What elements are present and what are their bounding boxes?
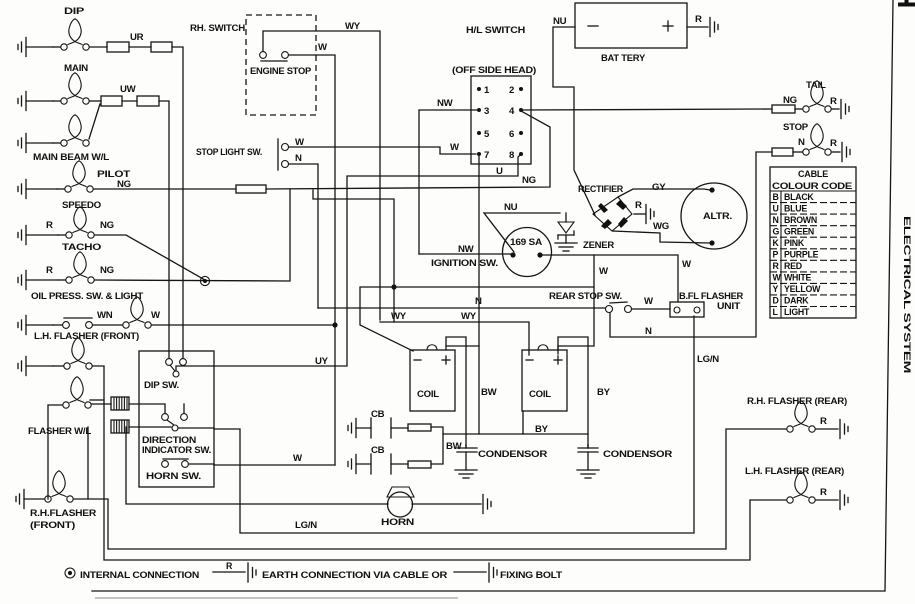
- svg-text:REAR STOP SW.: REAR STOP SW.: [549, 291, 622, 302]
- svg-text:7: 7: [484, 150, 489, 161]
- svg-text:K: K: [773, 238, 780, 248]
- svg-text:WY: WY: [391, 311, 407, 322]
- svg-text:R: R: [820, 416, 827, 427]
- rectifier bridge: [593, 197, 632, 231]
- connector UW b: [137, 96, 159, 106]
- svg-text:MAIN: MAIN: [64, 63, 88, 74]
- pin 7: [477, 150, 489, 161]
- wire connector1 into box: [129, 404, 165, 413]
- switch STOP LIGHT: [278, 139, 289, 170]
- svg-text:R.H.FLASHER: R.H.FLASHER: [30, 508, 96, 519]
- svg-text:RECTIFIER: RECTIFIER: [578, 184, 623, 195]
- wire N long to rear stop sw: [318, 307, 605, 309]
- svg-text:MAIN BEAM W/L: MAIN BEAM W/L: [33, 152, 109, 163]
- table row Y YELLOW: [770, 284, 856, 295]
- horn: [387, 487, 414, 517]
- svg-text:DIP SW.: DIP SW.: [144, 380, 179, 391]
- wire W from engine stop: [289, 55, 335, 465]
- ground PILOT lamp: [18, 180, 57, 199]
- svg-text:R: R: [830, 96, 837, 107]
- battery: [575, 3, 687, 48]
- svg-text:INDICATOR SW.: INDICATOR SW.: [142, 445, 211, 455]
- wire NU battery feed: [553, 27, 595, 215]
- wire flasher WL tap: [90, 399, 104, 401]
- page mark: [898, 0, 915, 7]
- wire NW pin3: [419, 110, 479, 254]
- ground DIP lamp: [18, 38, 53, 57]
- ground RH rear: [840, 420, 848, 439]
- svg-text:DARK: DARK: [784, 296, 809, 306]
- svg-text:COIL: COIL: [417, 389, 439, 400]
- wire direction sw centre to LGN: [178, 427, 214, 429]
- table row B BLACK: [770, 192, 856, 203]
- condensor 1: [457, 445, 477, 470]
- lamp MAIN BEAM W/L: [53, 115, 89, 146]
- svg-text:NG: NG: [783, 95, 797, 106]
- ground LH FLASHER FRONT: [18, 357, 53, 376]
- svg-text:Y: Y: [773, 284, 779, 294]
- wire LGN from box: [214, 316, 694, 533]
- switch HORN SW: [162, 459, 189, 467]
- connector UW a: [101, 96, 122, 106]
- ignition switch 169SA: [503, 228, 552, 277]
- pin 8: [509, 150, 523, 161]
- table row P PURPLE: [770, 250, 856, 261]
- lamp TACHO: [58, 252, 94, 283]
- wire connector2 into box: [129, 426, 171, 428]
- svg-text:B: B: [773, 192, 779, 202]
- wire coil1 plus to pin7 line: [446, 346, 479, 350]
- lamp LH FLASHER REAR: [787, 472, 838, 503]
- svg-text:BAT TERY: BAT TERY: [601, 53, 646, 64]
- svg-text:CB: CB: [371, 409, 385, 420]
- ground OIL PRESS: [18, 316, 53, 335]
- pin 5: [477, 129, 490, 140]
- svg-text:BLUE: BLUE: [784, 203, 807, 213]
- ground rectifier: [646, 205, 654, 224]
- wire LH front to LH rear: [93, 366, 786, 560]
- wire speedo diagonal to internal connection: [95, 235, 205, 280]
- svg-text:NG: NG: [100, 265, 114, 276]
- wire N stoplight riser: [289, 164, 318, 308]
- svg-text:WHITE: WHITE: [784, 273, 811, 283]
- svg-text:DIP: DIP: [64, 6, 85, 17]
- svg-text:NG: NG: [522, 175, 536, 186]
- wire W stoplight to pin7: [289, 147, 476, 154]
- legend fixing bolt symbol: [454, 563, 497, 582]
- wire WY from engine stop: [263, 31, 380, 320]
- svg-text:CONDENSOR: CONDENSOR: [478, 449, 547, 460]
- svg-text:W: W: [644, 296, 654, 307]
- svg-text:BW: BW: [446, 441, 463, 452]
- svg-text:R: R: [46, 220, 53, 231]
- svg-text:GY: GY: [652, 182, 666, 193]
- ground LH rear: [840, 491, 848, 510]
- wire UY into dip sw: [176, 366, 214, 371]
- svg-text:3: 3: [484, 106, 489, 117]
- node W junction: [332, 322, 337, 327]
- wire UW to DIP SW: [159, 101, 169, 351]
- wire rectifier R ground: [634, 213, 645, 215]
- border bottom shadow: [95, 597, 458, 599]
- svg-text:FLASHER W/L: FLASHER W/L: [28, 426, 91, 437]
- svg-text:R: R: [226, 561, 233, 571]
- ground zener: [555, 243, 577, 251]
- ground MAIN BEAM W/L: [18, 134, 53, 153]
- svg-text:TACHO: TACHO: [62, 242, 102, 253]
- connector UR b: [151, 42, 172, 52]
- svg-text:N: N: [295, 153, 302, 164]
- svg-text:FIXING BOLT: FIXING BOLT: [500, 570, 562, 581]
- svg-text:R: R: [635, 200, 642, 211]
- svg-text:COIL: COIL: [529, 389, 551, 400]
- svg-text:N: N: [645, 326, 652, 337]
- wire WG altr: [613, 231, 709, 243]
- border bottom: [92, 590, 884, 592]
- svg-text:WY: WY: [461, 311, 477, 322]
- lamp DIP: [53, 19, 107, 50]
- switch OIL PRESS: [53, 318, 92, 328]
- wire tacho to NG riser: [95, 190, 290, 281]
- table row G GREEN: [770, 226, 856, 237]
- wire battery R to ground: [687, 26, 708, 28]
- svg-text:NU: NU: [553, 16, 567, 27]
- switch DIRECTION INDICATOR: [162, 414, 188, 431]
- wire flasher WL to connector: [92, 403, 111, 405]
- svg-text:D: D: [773, 296, 779, 306]
- svg-text:WY: WY: [345, 21, 361, 32]
- wire W horn line: [214, 464, 335, 466]
- pin 2: [509, 85, 523, 96]
- connector CB2: [408, 461, 431, 468]
- wire pin4 to tail: [521, 109, 772, 110]
- zener diode: [558, 213, 574, 243]
- switch ENGINE STOP: [260, 52, 289, 61]
- svg-text:B.FL FLASHER: B.FL FLASHER: [679, 291, 744, 301]
- lamp MAIN: [53, 73, 101, 104]
- svg-text:L.H. FLASHER (FRONT): L.H. FLASHER (FRONT): [34, 331, 139, 342]
- wire W drop to coils: [558, 255, 594, 354]
- wire NG to pin4: [266, 111, 550, 189]
- svg-text:N: N: [798, 137, 805, 148]
- svg-text:LIGHT: LIGHT: [784, 307, 810, 317]
- svg-text:U: U: [496, 166, 503, 177]
- wire horn sw to W line: [189, 463, 214, 465]
- wire flasher WL left riser: [48, 405, 62, 499]
- svg-text:R: R: [773, 261, 780, 271]
- svg-text:(OFF SIDE HEAD): (OFF SIDE HEAD): [452, 65, 536, 75]
- ground TACHO lamp: [18, 271, 58, 290]
- ground tail: [841, 100, 849, 119]
- svg-text:CABLE: CABLE: [798, 169, 829, 180]
- svg-text:IGNITION SW.: IGNITION SW.: [431, 258, 498, 269]
- ground condensor 1: [455, 470, 477, 478]
- alternator ALTR: [681, 183, 747, 249]
- svg-text:LG/N: LG/N: [697, 354, 719, 365]
- wire junction riser: [313, 190, 394, 287]
- connector CB1: [408, 424, 431, 431]
- wire WY line: [380, 322, 529, 355]
- svg-text:L.H. FLASHER (REAR): L.H. FLASHER (REAR): [745, 466, 844, 477]
- lamp OIL PRESS: [93, 297, 151, 328]
- border right: [885, 0, 893, 591]
- svg-text:PURPLE: PURPLE: [784, 250, 819, 260]
- lamp RH FLASHER REAR: [787, 401, 838, 432]
- svg-text:DIRECTION: DIRECTION: [142, 435, 196, 445]
- svg-text:EARTH CONNECTION VIA CABLE OR: EARTH CONNECTION VIA CABLE OR: [262, 570, 447, 581]
- svg-text:N: N: [773, 215, 779, 225]
- wire UR link: [129, 46, 151, 48]
- wire coil2 plus to condensor2: [558, 337, 588, 448]
- ground stop: [842, 143, 850, 162]
- contact breaker 1: [348, 418, 408, 438]
- svg-text:CB: CB: [371, 445, 385, 456]
- svg-text:UW: UW: [120, 84, 137, 95]
- connector tail NG: [772, 105, 795, 113]
- wire ignition W output: [543, 255, 678, 302]
- table row D DARK: [770, 296, 856, 307]
- svg-text:STOP LIGHT SW.: STOP LIGHT SW.: [196, 147, 262, 158]
- lamp PILOT: [57, 161, 93, 192]
- pin 3: [477, 106, 489, 117]
- wire horn feed: [126, 427, 388, 504]
- svg-text:RH. SWITCH: RH. SWITCH: [190, 23, 245, 34]
- legend earth via cable symbol: [213, 563, 256, 582]
- svg-text:HORN SW.: HORN SW.: [146, 471, 201, 482]
- box handlebar switches: [139, 351, 214, 487]
- ground MAIN lamp: [18, 92, 53, 111]
- svg-text:W: W: [151, 310, 161, 321]
- table row W WHITE: [770, 273, 856, 284]
- svg-text:ELECTRICAL SYSTEM: ELECTRICAL SYSTEM: [901, 216, 912, 373]
- svg-text:STOP: STOP: [783, 122, 809, 133]
- svg-text:YELLOW: YELLOW: [784, 284, 821, 294]
- wire NG pilot: [94, 188, 236, 190]
- ground condensor 2: [577, 470, 599, 478]
- ground SPEEDO lamp: [18, 226, 58, 245]
- lamp TAIL: [795, 81, 839, 112]
- wire W coil branch: [360, 287, 594, 351]
- wire rear stop to flasher unit: [632, 308, 670, 310]
- svg-text:169 SA: 169 SA: [510, 237, 542, 248]
- wire NW into ignition: [419, 253, 511, 255]
- box ENGINE STOP dashed: [246, 15, 316, 115]
- node coil feed junction: [391, 284, 396, 289]
- svg-text:NG: NG: [100, 220, 114, 231]
- svg-text:W: W: [773, 273, 782, 283]
- pin 4: [509, 106, 523, 117]
- svg-text:R: R: [46, 265, 53, 276]
- wire coil1 plus to condensor: [446, 337, 466, 448]
- wire UW link: [122, 100, 137, 102]
- lamp FLASHER W/L: [63, 377, 91, 408]
- wire U from pin8: [214, 154, 521, 366]
- svg-text:R: R: [820, 487, 827, 498]
- svg-text:W: W: [450, 142, 460, 153]
- lamp RH FLASHER FRONT: [45, 471, 73, 502]
- switch REAR STOP: [606, 302, 632, 313]
- lamp STOP: [793, 124, 840, 155]
- svg-text:W: W: [318, 42, 328, 53]
- lamp SPEEDO: [58, 207, 94, 238]
- connector stop N: [772, 148, 793, 156]
- svg-text:NU: NU: [504, 202, 518, 213]
- svg-text:UY: UY: [315, 356, 329, 367]
- wire stub dir sw right: [183, 404, 185, 413]
- svg-text:BLACK: BLACK: [784, 192, 814, 202]
- svg-text:BW: BW: [481, 387, 498, 398]
- table row N BROWN: [770, 215, 856, 226]
- svg-text:H/L SWITCH: H/L SWITCH: [466, 25, 525, 36]
- svg-text:R: R: [695, 14, 702, 25]
- wire pin7 down: [478, 156, 480, 434]
- svg-text:GREEN: GREEN: [784, 226, 814, 236]
- svg-text:NW: NW: [437, 98, 454, 109]
- wire GY altr: [618, 189, 710, 197]
- svg-text:G: G: [773, 226, 780, 236]
- condensor 2: [578, 445, 598, 470]
- box H/L switch: [471, 76, 531, 164]
- svg-text:W: W: [293, 453, 303, 464]
- wire CB2 riser: [431, 434, 443, 464]
- svg-text:U: U: [773, 203, 779, 213]
- connector direction switch upper: [111, 397, 129, 410]
- svg-text:WN: WN: [97, 310, 113, 321]
- svg-text:HORN: HORN: [381, 517, 414, 528]
- svg-text:L: L: [773, 307, 779, 317]
- coil 1: [410, 345, 455, 411]
- wire NU ignition: [484, 213, 560, 252]
- svg-text:(FRONT): (FRONT): [30, 520, 75, 531]
- wire UR to DIP SW: [172, 47, 183, 351]
- wire stop lamp feed: [610, 152, 772, 337]
- svg-text:UNIT: UNIT: [717, 301, 741, 311]
- svg-text:ENGINE STOP: ENGINE STOP: [250, 66, 311, 76]
- wire junction to WY line: [393, 287, 395, 322]
- lamp LH FLASHER FRONT: [53, 338, 92, 369]
- connector UR a: [107, 42, 129, 52]
- svg-text:RED: RED: [784, 261, 802, 271]
- svg-text:SPEEDO: SPEEDO: [62, 200, 102, 211]
- ground horn: [483, 495, 491, 514]
- svg-text:PINK: PINK: [784, 238, 805, 248]
- svg-text:OIL PRESS. SW. & LIGHT: OIL PRESS. SW. & LIGHT: [31, 291, 143, 302]
- switch DIP SW: [166, 351, 187, 377]
- legend internal connection symbol: [65, 568, 75, 578]
- table row U BLUE: [770, 203, 856, 214]
- coil 2: [522, 345, 567, 411]
- svg-text:COLOUR CODE: COLOUR CODE: [772, 181, 852, 191]
- svg-text:CONDENSOR: CONDENSOR: [603, 449, 672, 460]
- table row R RED: [770, 261, 856, 272]
- svg-text:ALTR.: ALTR.: [703, 211, 732, 222]
- svg-text:P: P: [773, 250, 779, 260]
- node internal connection: [200, 276, 209, 285]
- wire main beam diagonal: [89, 104, 100, 139]
- connector direction switch lower: [111, 420, 129, 433]
- wire RH front to RH rear: [74, 429, 786, 549]
- svg-text:BROWN: BROWN: [784, 215, 817, 225]
- svg-text:UR: UR: [130, 32, 144, 43]
- svg-text:LG/N: LG/N: [295, 520, 317, 531]
- svg-text:W: W: [682, 259, 692, 270]
- flasher unit box: [670, 302, 704, 317]
- svg-text:BY: BY: [597, 387, 611, 398]
- contact breaker 2: [348, 454, 408, 474]
- svg-text:R: R: [830, 138, 837, 149]
- svg-text:6: 6: [509, 129, 514, 140]
- wire RH front up to connector2: [87, 427, 89, 499]
- svg-text:ZENER: ZENER: [583, 240, 614, 251]
- wire BY under coil2: [522, 411, 524, 434]
- wire oil lamp to W junction: [152, 324, 335, 326]
- wire CB1 to condensor line: [431, 427, 588, 434]
- ground battery: [710, 18, 718, 37]
- svg-text:INTERNAL CONNECTION: INTERNAL CONNECTION: [80, 570, 199, 581]
- wire horn to ground: [412, 503, 481, 505]
- table row K PINK: [770, 238, 856, 249]
- connector NG: [236, 185, 266, 193]
- svg-text:2: 2: [509, 85, 514, 96]
- ground RH FLASHER FRONT: [16, 490, 44, 509]
- svg-text:WG: WG: [653, 221, 669, 232]
- pin 6: [509, 129, 523, 140]
- pin 1: [477, 85, 490, 96]
- svg-text:W: W: [599, 266, 609, 277]
- table row L LIGHT: [773, 307, 811, 317]
